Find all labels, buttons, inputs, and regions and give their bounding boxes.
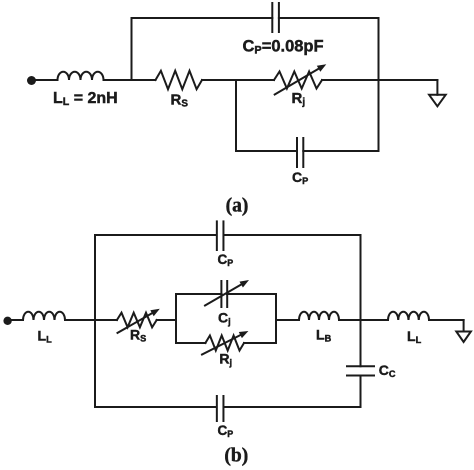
svg-text:CP: CP [218,423,234,439]
svg-text:CP: CP [218,252,234,268]
svg-text:CP: CP [292,169,308,186]
svg-text:LB: LB [316,327,332,344]
svg-text:LL: LL [407,328,422,345]
svg-text:(a): (a) [226,196,249,217]
svg-text:(b): (b) [224,446,248,467]
svg-text:CC: CC [379,362,396,379]
svg-text:Rj: Rj [219,351,232,368]
svg-text:CP=0.08pF: CP=0.08pF [243,38,324,57]
svg-text:Rj: Rj [292,90,306,108]
svg-text:RS: RS [171,92,189,110]
svg-text:Cj: Cj [218,310,231,327]
svg-text:LL: LL [38,328,53,345]
svg-text:RS: RS [130,327,146,344]
svg-text:LL = 2nH: LL = 2nH [53,90,118,108]
